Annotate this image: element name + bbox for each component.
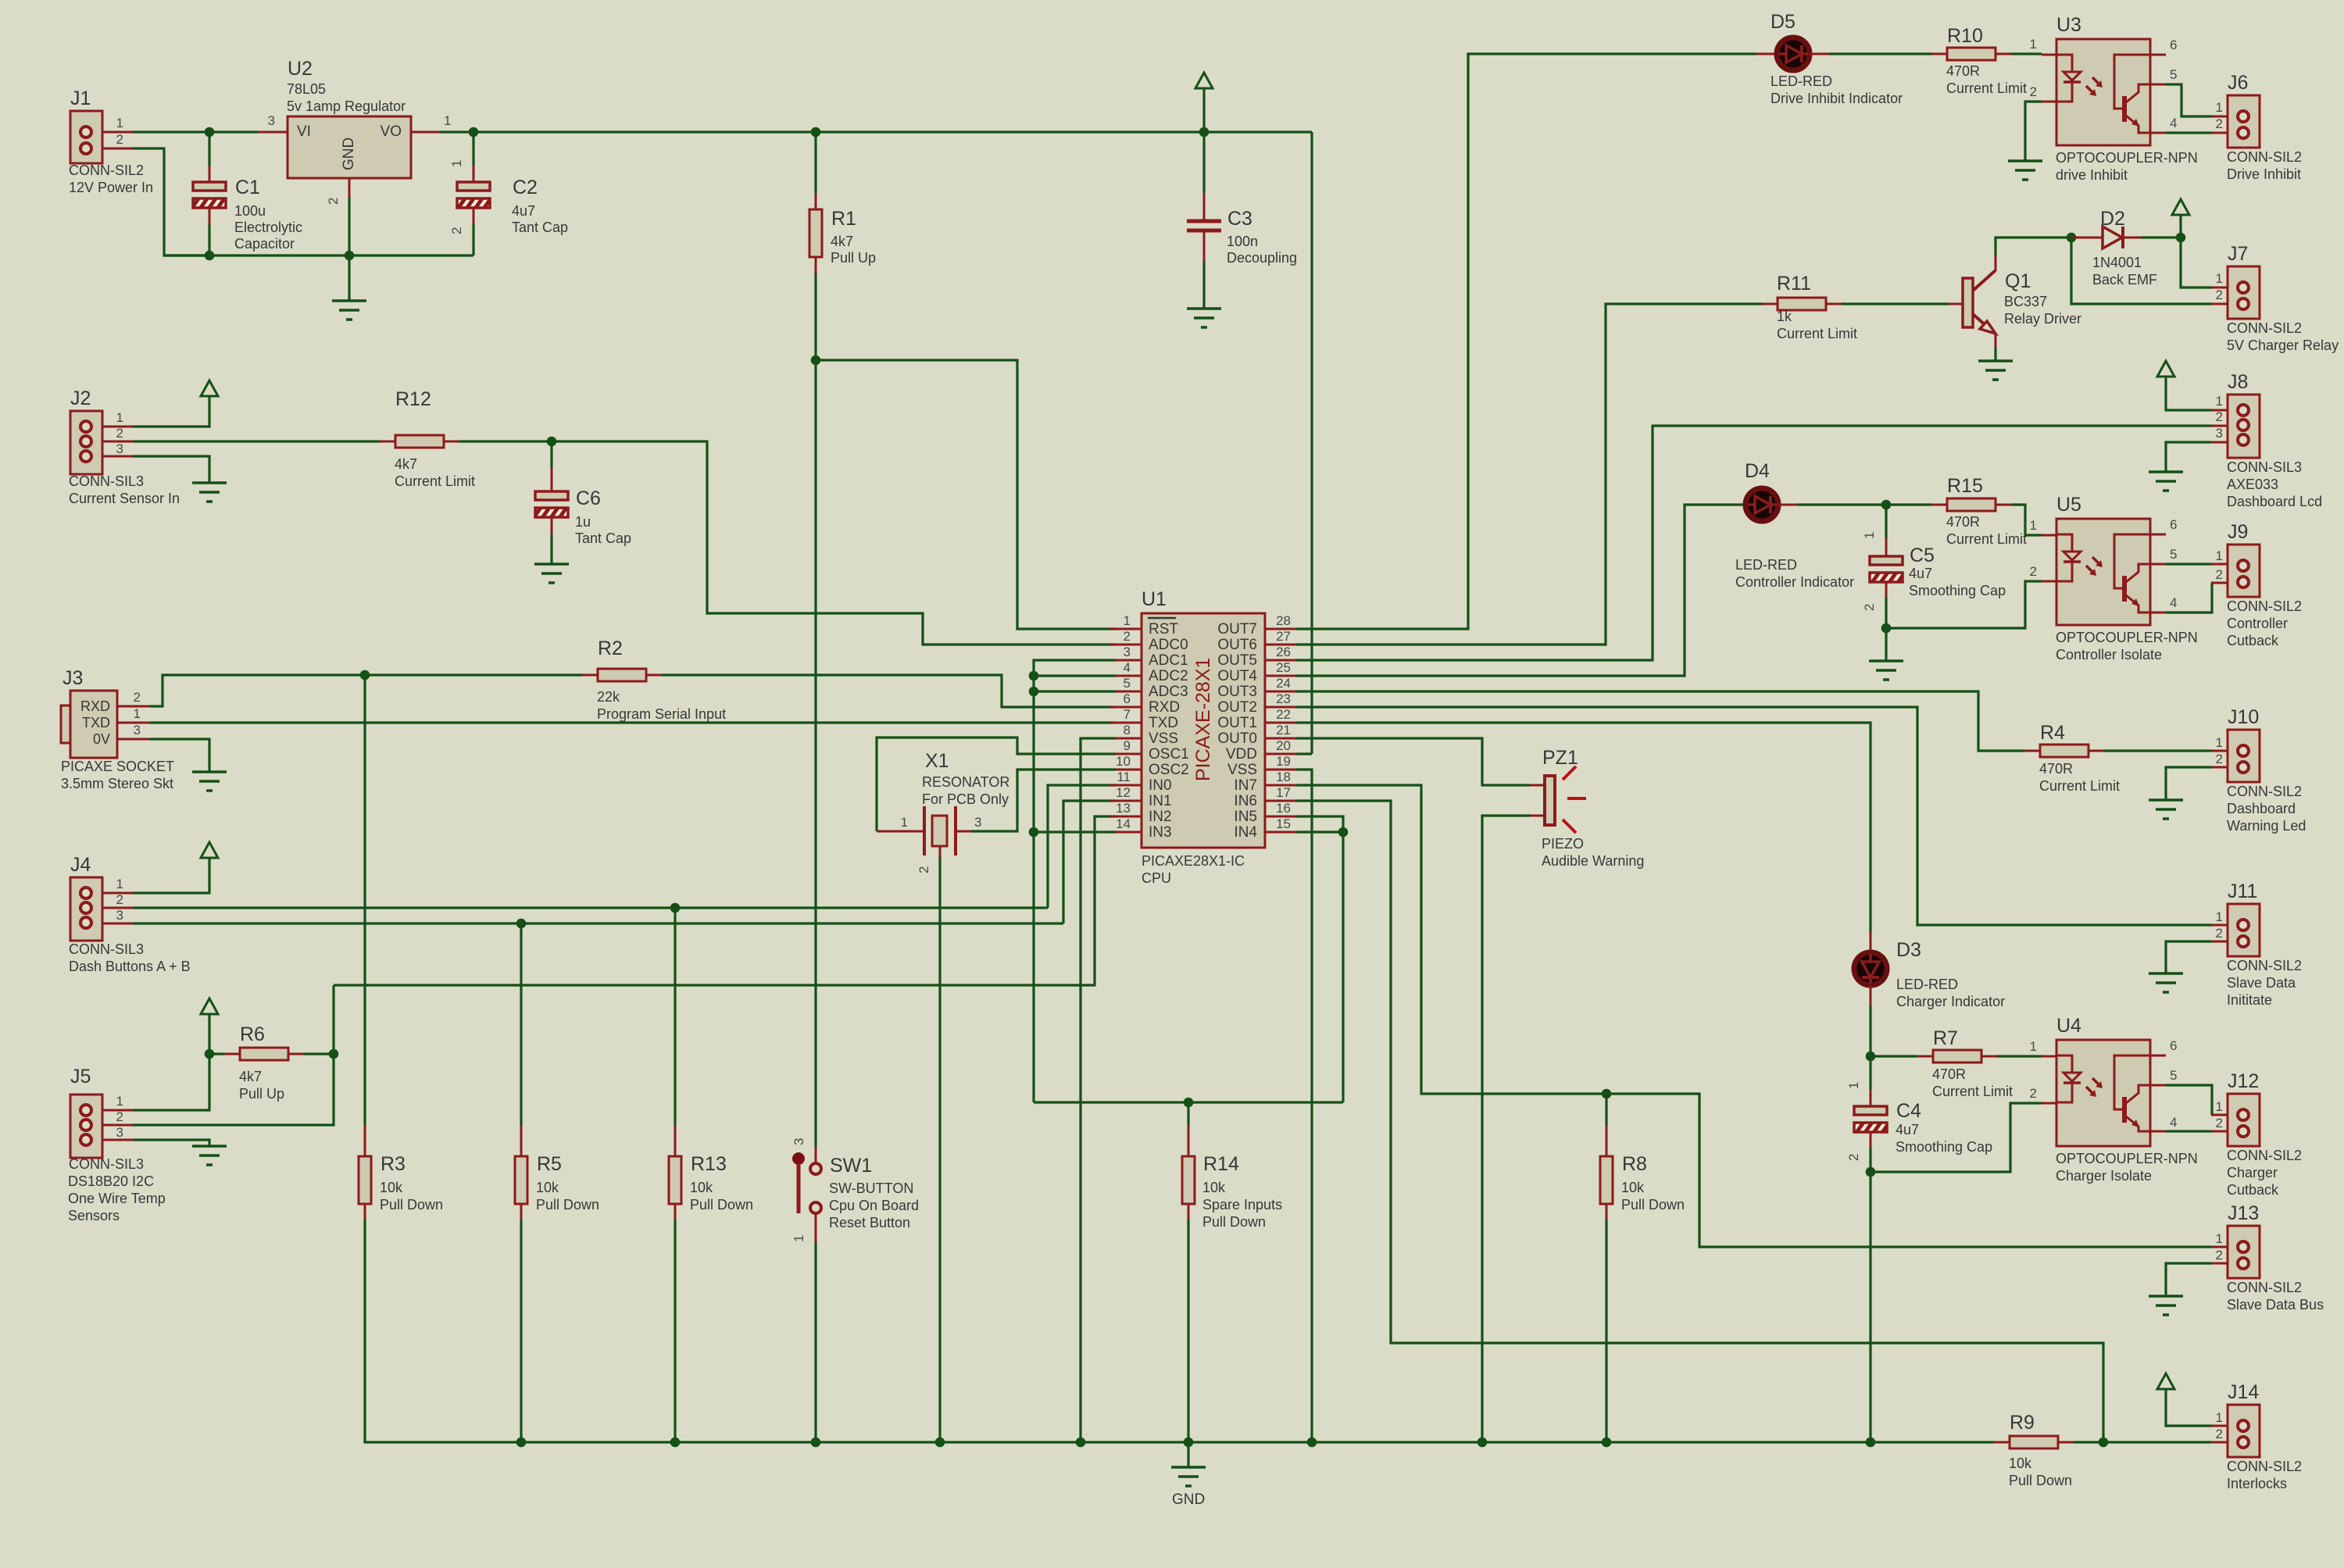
wire OSC2 pin10 to X1 pin3 [971,770,1116,831]
svg-text:Spare Inputs: Spare Inputs [1202,1197,1282,1213]
svg-text:4k7: 4k7 [239,1069,262,1084]
svg-text:6: 6 [2170,1038,2177,1053]
node IN4/IN5 [1338,827,1349,838]
svg-text:100u: 100u [234,203,266,219]
svg-text:4: 4 [2170,116,2177,130]
svg-text:2: 2 [116,1109,123,1124]
wire spare horizontal to IN4/IN5 riser [1034,1101,1343,1103]
svg-text:3: 3 [268,113,275,128]
svg-text:TXD: TXD [82,715,110,730]
svg-text:R8: R8 [1622,1153,1647,1175]
resistor R14 10k spare inputs pull-down [1187,1102,1189,1126]
svg-text:23: 23 [1276,691,1291,706]
diode D2 1N4001 back EMF [2071,237,2103,239]
connector J13 slave data bus [2211,1246,2228,1248]
wire J2 pin2 to R12 [102,441,133,443]
svg-text:LED-RED: LED-RED [1896,977,1958,992]
svg-text:J10: J10 [2228,706,2259,728]
wire OUT7 pin28 to D5 [1296,54,1756,629]
node R12/C6 [547,437,557,447]
wire J4 pin1 to 5V arrow [102,892,133,895]
svg-text:CONN-SIL2: CONN-SIL2 [2227,958,2302,973]
svg-text:PICAXE-28X1: PICAXE-28X1 [1192,658,1214,781]
svg-text:R13: R13 [691,1153,727,1175]
wire OUT2 pin23 to J11 pin1 [1296,707,2211,925]
svg-text:2: 2 [116,132,123,147]
svg-text:OUT0: OUT0 [1217,730,1257,747]
svg-text:CONN-SIL2: CONN-SIL2 [2227,149,2302,165]
svg-text:U5: U5 [2056,494,2081,516]
svg-text:3: 3 [116,908,123,923]
svg-text:VSS: VSS [1149,730,1178,747]
svg-text:D4: D4 [1745,460,1770,482]
svg-text:2: 2 [917,866,931,873]
svg-text:6: 6 [2170,517,2177,532]
capacitor C1 [208,132,210,166]
svg-text:Current Limit: Current Limit [2039,778,2120,794]
svg-text:Relay Driver: Relay Driver [2004,311,2081,327]
svg-text:For PCB Only: For PCB Only [922,791,1009,807]
wire J1 pin2 to ground rail [102,148,133,150]
svg-text:2: 2 [2216,567,2223,582]
pin 2 (ADC0) [1110,644,1142,646]
svg-text:Pull Up: Pull Up [239,1086,284,1102]
pin 10 (OSC2) [1110,769,1142,771]
connector J6 drive inhibit [2211,116,2228,118]
wire R10 to U3 pin1 [2011,52,2042,55]
svg-text:Charger Indicator: Charger Indicator [1896,994,2005,1009]
svg-text:ADC2: ADC2 [1149,668,1188,684]
wire J5 pin3 to ground [102,1139,133,1141]
svg-text:Interlocks: Interlocks [2227,1476,2287,1491]
node Q1/D2/J7 [2067,233,2077,243]
svg-text:4: 4 [2170,595,2177,610]
pin 18 (IN7) [1265,784,1296,787]
svg-text:12V Power In: 12V Power In [69,180,153,195]
wire node to R7 [1871,1055,1917,1057]
resistor R12 4k7 current limit [380,441,395,443]
svg-text:VO: VO [381,123,402,140]
svg-text:CONN-SIL3: CONN-SIL3 [69,941,144,957]
svg-text:OUT5: OUT5 [1217,652,1257,669]
svg-text:1: 1 [2216,271,2223,286]
svg-text:ADC1: ADC1 [1149,652,1188,669]
svg-text:J14: J14 [2228,1381,2259,1403]
svg-text:17: 17 [1276,785,1291,800]
svg-text:Warning Led: Warning Led [2227,818,2306,834]
pin 1 (RST) [1110,628,1142,630]
wire spare IN3 pin14 [1034,830,1116,833]
svg-text:X1: X1 [925,750,949,772]
regulator U2 78L05 [259,131,288,134]
power arrow at J8 pin1 [2157,361,2174,377]
svg-text:4: 4 [2170,1115,2177,1130]
svg-text:IN5: IN5 [1234,809,1257,825]
svg-text:1k: 1k [1777,309,1792,324]
svg-text:Pull Down: Pull Down [380,1197,443,1213]
resistor R10 470R current limit [1931,53,1947,55]
svg-text:RXD: RXD [80,698,110,714]
svg-text:8: 8 [1124,723,1131,738]
connector J14 interlocks [2211,1425,2228,1427]
connector J3 stereo socket [61,705,70,743]
resistor R15 470R current limit [1931,504,1947,506]
svg-text:R10: R10 [1947,25,1983,47]
svg-text:CONN-SIL2: CONN-SIL2 [2227,598,2302,614]
svg-text:PIEZO: PIEZO [1542,836,1584,852]
wire J10 pin2 to ground [2166,767,2211,800]
svg-text:78L05: 78L05 [287,81,326,97]
svg-text:1: 1 [901,815,908,830]
wire U5 pin4 to J9 pin2 [2166,583,2212,613]
svg-text:18: 18 [1276,770,1291,784]
svg-text:2: 2 [2030,564,2037,579]
wire RST net to U1 pin1 [816,360,1116,629]
svg-text:1: 1 [2216,394,2223,409]
svg-text:10k: 10k [1202,1180,1226,1195]
svg-text:Back EMF: Back EMF [2092,272,2157,288]
svg-text:1: 1 [2030,518,2037,533]
svg-text:R14: R14 [1203,1153,1239,1175]
wire C4 to U4 pin2 [1871,1103,2042,1172]
resistor R4 470R current limit [2024,750,2040,752]
svg-text:Slave Data Bus: Slave Data Bus [2227,1297,2324,1313]
wire J2 pin1 to 5V arrow [102,426,133,428]
resistor R6 4k7 pull-up [209,1052,224,1055]
svg-text:J3: J3 [63,667,83,689]
junction on ground bus [935,1438,945,1448]
wire J8 pin3 to ground [2166,442,2211,472]
pin 21 (OUT0) [1265,738,1296,740]
wire IN7 pin18 to R8 net [1296,785,1606,1094]
node spare / R14 [1184,1098,1194,1108]
svg-text:22: 22 [1276,707,1291,722]
svg-text:1: 1 [1124,613,1131,628]
svg-text:BC337: BC337 [2004,294,2047,309]
svg-text:IN1: IN1 [1149,793,1172,809]
pin 17 (IN6) [1265,800,1296,802]
svg-text:CONN-SIL2: CONN-SIL2 [2227,784,2302,799]
svg-text:RESONATOR: RESONATOR [922,774,1009,790]
resistor R8 10k pull-down [1605,1094,1607,1126]
wire R4 to J10 pin1 [2104,749,2211,752]
pin 23 (OUT2) [1265,706,1296,709]
ground rail wire [164,254,473,256]
node R1 bottom / SW1 / RST [811,355,821,366]
wire C5 to ground [1885,628,1887,661]
svg-text:One Wire Temp: One Wire Temp [68,1191,166,1206]
svg-text:PZ1: PZ1 [1542,747,1578,769]
svg-text:CONN-SIL2: CONN-SIL2 [2227,1459,2302,1474]
svg-text:10k: 10k [380,1180,403,1195]
wire D2 cathode to 5V arrow node [2142,236,2181,238]
wire IN5 pin16 riser [1296,816,1343,1102]
svg-text:OUT4: OUT4 [1217,668,1257,684]
connector J12 charger cutback [2211,1114,2228,1116]
wire button A net down to R13 [674,908,676,1126]
svg-text:2: 2 [2216,1248,2223,1263]
wire OSC1 pin9 to X1 pin1 [877,738,1116,831]
svg-text:2: 2 [2030,84,2037,99]
svg-text:Drive Inhibit Indicator: Drive Inhibit Indicator [1771,91,1903,106]
svg-text:TXD: TXD [1149,715,1178,731]
wire R9 node to J14 pin2 [2103,1441,2211,1443]
svg-text:Charger: Charger [2227,1165,2278,1180]
svg-text:Pull Down: Pull Down [2009,1473,2072,1488]
svg-text:2: 2 [2216,409,2223,424]
connector J9 controller cutback [2211,563,2228,566]
svg-text:28: 28 [1276,613,1291,628]
svg-text:5: 5 [2170,67,2177,82]
svg-text:VSS: VSS [1227,762,1257,778]
svg-text:1: 1 [2216,1099,2223,1114]
wire U4 pin4 to J12 pin2 [2166,1130,2211,1132]
svg-text:IN6: IN6 [1234,793,1257,809]
svg-text:Controller Indicator: Controller Indicator [1735,574,1854,590]
node button A / R13 [670,903,681,913]
svg-text:2: 2 [2216,752,2223,766]
wire J3 RXD to R2 net [117,705,150,708]
svg-text:Pull Down: Pull Down [690,1197,753,1213]
svg-text:GND: GND [1172,1491,1205,1508]
svg-text:2: 2 [326,198,341,205]
svg-text:Current Limit: Current Limit [1932,1084,2013,1099]
power arrow at J2 pin1 [201,380,218,396]
pin 13 (IN2) [1110,816,1142,818]
svg-text:DS18B20 I2C: DS18B20 I2C [68,1173,154,1189]
connector J1 [70,111,102,163]
svg-text:Current Limit: Current Limit [1946,80,2027,96]
capacitor C6 1u [550,441,552,467]
node rail at C3 [1199,127,1210,138]
svg-text:J9: J9 [2228,521,2248,543]
node button B / R5 [516,919,527,929]
svg-text:1: 1 [791,1235,806,1242]
svg-text:LED-RED: LED-RED [1735,557,1797,573]
svg-text:R7: R7 [1933,1027,1958,1049]
svg-text:C2: C2 [513,177,538,198]
svg-text:CONN-SIL2: CONN-SIL2 [2227,1148,2302,1163]
svg-text:VDD: VDD [1226,746,1257,763]
wire RXD node to R2 [365,673,582,676]
ground symbol under U2 [348,255,350,301]
svg-text:D2: D2 [2100,208,2125,230]
svg-text:15: 15 [1276,816,1291,831]
svg-text:C5: C5 [1910,545,1935,566]
wire IN0 riser to U1 pin11 [1048,785,1116,908]
svg-text:Cpu On Board: Cpu On Board [829,1198,919,1213]
svg-text:Decoupling: Decoupling [1227,250,1297,266]
svg-text:Current Limit: Current Limit [1777,326,1857,341]
svg-text:OUT1: OUT1 [1217,715,1257,731]
svg-text:R3: R3 [381,1153,406,1175]
wire OUT1 pin22 to D3 [1296,723,1871,932]
junction on ground bus [1602,1438,1612,1448]
resonator X1 [877,830,924,833]
svg-text:Cutback: Cutback [2227,1182,2279,1198]
svg-text:Controller: Controller [2227,616,2288,631]
svg-text:Drive Inhibit: Drive Inhibit [2227,166,2301,182]
svg-text:R6: R6 [240,1023,265,1045]
wire button B net down to R5 [520,923,522,1126]
wire J4 pin3 to IN1 net [102,923,133,925]
svg-text:Tant Cap: Tant Cap [575,530,631,546]
svg-text:1: 1 [116,1094,123,1109]
svg-text:7: 7 [1124,707,1131,722]
svg-text:2: 2 [1124,629,1131,644]
svg-text:IN4: IN4 [1234,824,1257,841]
svg-text:IN0: IN0 [1149,777,1172,794]
svg-text:R4: R4 [2040,722,2065,744]
svg-text:470R: 470R [1946,514,1980,530]
svg-text:2: 2 [2216,1116,2223,1130]
wire PZ1 bottom to ground bus [1482,816,1530,1442]
wire U5 pin5 to J9 pin1 [2166,563,2211,565]
wire J3 0V to ground [117,738,150,741]
svg-text:CONN-SIL2: CONN-SIL2 [69,163,144,178]
wire OUT4 pin25 to D4 [1296,505,1744,676]
node C4 bottom / U4 pin2 [1866,1167,1876,1177]
node spare IN3 [1029,827,1039,838]
node IN7/R8 [1602,1089,1612,1099]
resistor R5 10k pull-down [520,1126,523,1156]
svg-text:9: 9 [1124,738,1131,753]
svg-text:21: 21 [1276,723,1291,738]
capacitor C5 4u7 smoothing [1885,505,1887,538]
svg-text:Cutback: Cutback [2227,633,2279,648]
wire R2 to U1 RXD pin6 [662,675,1116,707]
capacitor C3 100n [1202,132,1205,193]
svg-text:19: 19 [1276,754,1291,769]
svg-text:D3: D3 [1896,939,1921,961]
pin 27 (OUT6) [1265,644,1296,646]
IC U1 PICAXE-28X1 [1142,613,1265,848]
svg-text:1: 1 [2216,100,2223,115]
resistor R11 1k current limit [1762,303,1778,305]
power arrow at R6 [201,998,218,1014]
node R6 right [329,1049,339,1059]
svg-text:4u7: 4u7 [1909,566,1932,581]
svg-text:U4: U4 [2056,1015,2081,1037]
svg-text:10k: 10k [536,1180,559,1195]
svg-text:VI: VI [297,123,311,140]
wire U3 pin5 to J6 pin1 [2166,84,2211,116]
svg-text:11: 11 [1117,770,1131,784]
svg-text:16: 16 [1276,801,1291,816]
svg-text:27: 27 [1276,629,1291,644]
svg-text:2: 2 [2030,1086,2037,1101]
svg-text:Pull Down: Pull Down [1202,1214,1266,1230]
svg-text:Q1: Q1 [2005,270,2031,292]
svg-text:2: 2 [116,426,123,441]
svg-text:D5: D5 [1771,11,1796,33]
capacitor C2 [472,132,474,166]
resistor R13 10k pull-down [674,1126,677,1156]
svg-text:1: 1 [1846,1082,1861,1089]
junction on ground bus [1184,1438,1194,1448]
svg-text:5v 1amp Regulator: 5v 1amp Regulator [287,98,406,114]
svg-text:drive Inhibit: drive Inhibit [2056,167,2128,183]
wire U3 pin4 to J6 pin2 [2166,131,2211,134]
junction on ground bus [1307,1438,1317,1448]
wire C5 to U5 pin2 [1886,581,2042,628]
wire to J7 pin1 [2181,238,2211,288]
svg-text:J5: J5 [70,1066,91,1088]
wire J5 pin2 (one-wire data) to R6 and IN2 [102,1124,133,1127]
svg-text:CONN-SIL2: CONN-SIL2 [2227,320,2302,336]
wire OUT5 pin26 to J8 pin2 [1296,426,2211,660]
svg-text:OUT7: OUT7 [1217,621,1257,638]
svg-text:PICAXE SOCKET: PICAXE SOCKET [61,759,174,774]
wire VSS pin8 to ground bus [1081,738,1116,1442]
wire D4 to R15 node [1798,503,1931,505]
svg-text:10k: 10k [1621,1180,1645,1195]
svg-text:100n: 100n [1227,234,1258,249]
svg-text:2: 2 [134,690,141,705]
optocoupler U5 controller isolate [2042,534,2056,537]
power arrow at J14 pin1 [2157,1373,2174,1389]
wire IN6 pin17 to J14 net [1296,801,2103,1442]
svg-text:0V: 0V [93,731,110,747]
svg-text:SW-BUTTON: SW-BUTTON [829,1180,913,1196]
svg-text:2: 2 [1846,1154,1861,1161]
svg-text:ADC0: ADC0 [1149,637,1188,653]
svg-text:22k: 22k [597,689,620,705]
node RXD/R3 [360,670,370,680]
power arrow 5V at C3 [1195,73,1213,88]
wire D2 anode node to J7 pin2 [2071,238,2211,304]
svg-text:OSC1: OSC1 [1149,746,1189,763]
svg-text:R5: R5 [537,1153,562,1175]
svg-text:R12: R12 [395,388,431,410]
piezo PZ1 [1530,784,1545,787]
svg-text:R11: R11 [1777,273,1811,295]
switch SW1 reset button [815,1147,817,1163]
wire R12 net to U1 ADC0 pin2 [552,441,1116,645]
LED D3 charger indicator [1870,932,1872,952]
wire Q1 collector to D2 node [1996,238,2071,256]
node C5 bottom [1881,623,1892,634]
wire R13 to ground bus [674,1220,676,1442]
power arrow at D2 [2172,199,2189,215]
pin 22 (OUT1) [1265,722,1296,724]
svg-text:PICAXE28X1-IC: PICAXE28X1-IC [1142,853,1245,869]
svg-text:J11: J11 [2228,880,2257,902]
connector J5 [70,1095,102,1158]
svg-text:12: 12 [1116,785,1131,800]
wire RXD net down to R3 [363,675,366,1126]
svg-text:10: 10 [1116,754,1131,769]
svg-text:J7: J7 [2228,243,2248,265]
svg-text:OUT3: OUT3 [1217,684,1257,700]
node U2 gnd [345,251,355,261]
svg-text:CONN-SIL3: CONN-SIL3 [69,473,144,489]
wire J11 pin2 to ground [2166,941,2211,973]
svg-text:Dashboard: Dashboard [2227,801,2296,816]
svg-text:Dash Buttons A + B: Dash Buttons A + B [69,959,191,974]
connector J7 5V charger relay [2211,287,2228,289]
wire Q1 emitter to ground [1994,347,1996,361]
pin 16 (IN5) [1265,816,1296,818]
svg-text:470R: 470R [1946,63,1980,79]
svg-text:1: 1 [2030,1039,2037,1054]
svg-text:Dashboard Lcd: Dashboard Lcd [2227,494,2322,509]
optocoupler U3 drive inhibit [2042,54,2056,56]
junction on ground bus [1478,1438,1488,1448]
svg-text:ADC3: ADC3 [1149,684,1188,700]
svg-text:1: 1 [444,113,451,128]
svg-text:Slave Data: Slave Data [2227,975,2296,991]
